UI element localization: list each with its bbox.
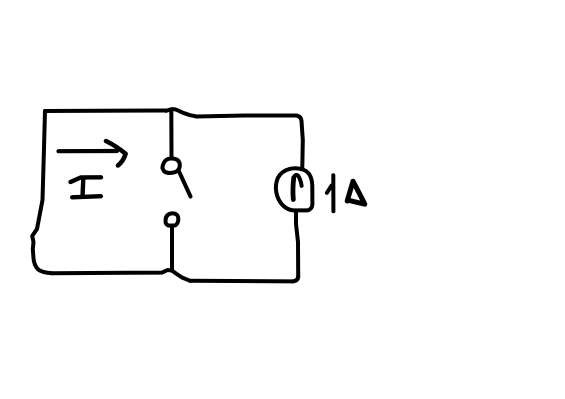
switch S1 blade [179,171,191,197]
wire bottom-right segment [190,279,293,284]
wire bottom-right corner [293,277,298,282]
wire bottom-left segment [52,270,172,273]
wire right vertical bottom [296,211,298,277]
value label 1A digit 1 [327,175,334,211]
switch S1 bottom terminal [166,213,179,225]
current source I1 [276,168,312,210]
switch S1 top terminal [162,158,179,172]
wire right vertical top [302,121,303,167]
value label 1A letter A [347,181,365,204]
node B (bottom junction jog) [172,270,191,281]
wire top-left segment [45,109,166,114]
wire middle vertical bottom [170,228,174,270]
wire middle vertical top [169,110,173,157]
wire left vertical [32,111,52,273]
current direction arrow shaft [59,149,118,153]
label I [71,177,102,197]
wire top-right segment [196,116,302,122]
node A (top junction jog) [166,109,196,116]
current direction arrow head [106,141,126,166]
current source arrow [291,178,297,200]
